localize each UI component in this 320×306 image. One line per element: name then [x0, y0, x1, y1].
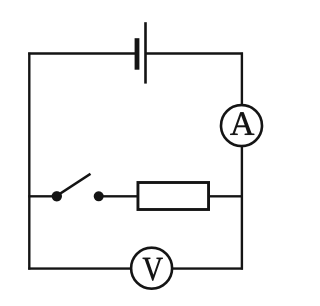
- wire middle left: [28, 195, 54, 197]
- wire top left (to battery): [28, 52, 135, 54]
- wire middle right (resistor to right wire): [209, 195, 243, 197]
- battery B1: [135, 22, 147, 83]
- wire top right (battery to corner): [145, 52, 243, 54]
- voltmeter V: [131, 248, 172, 289]
- wire bottom left: [28, 267, 131, 269]
- switch S1: [52, 174, 104, 202]
- ammeter A: [221, 105, 262, 146]
- wire bottom right: [173, 267, 243, 269]
- wire middle center (switch to resistor): [101, 195, 138, 197]
- wire left vertical: [28, 52, 30, 269]
- wire right vertical upper: [241, 52, 243, 106]
- wire right vertical lower: [241, 146, 243, 270]
- resistor R1: [138, 183, 209, 210]
